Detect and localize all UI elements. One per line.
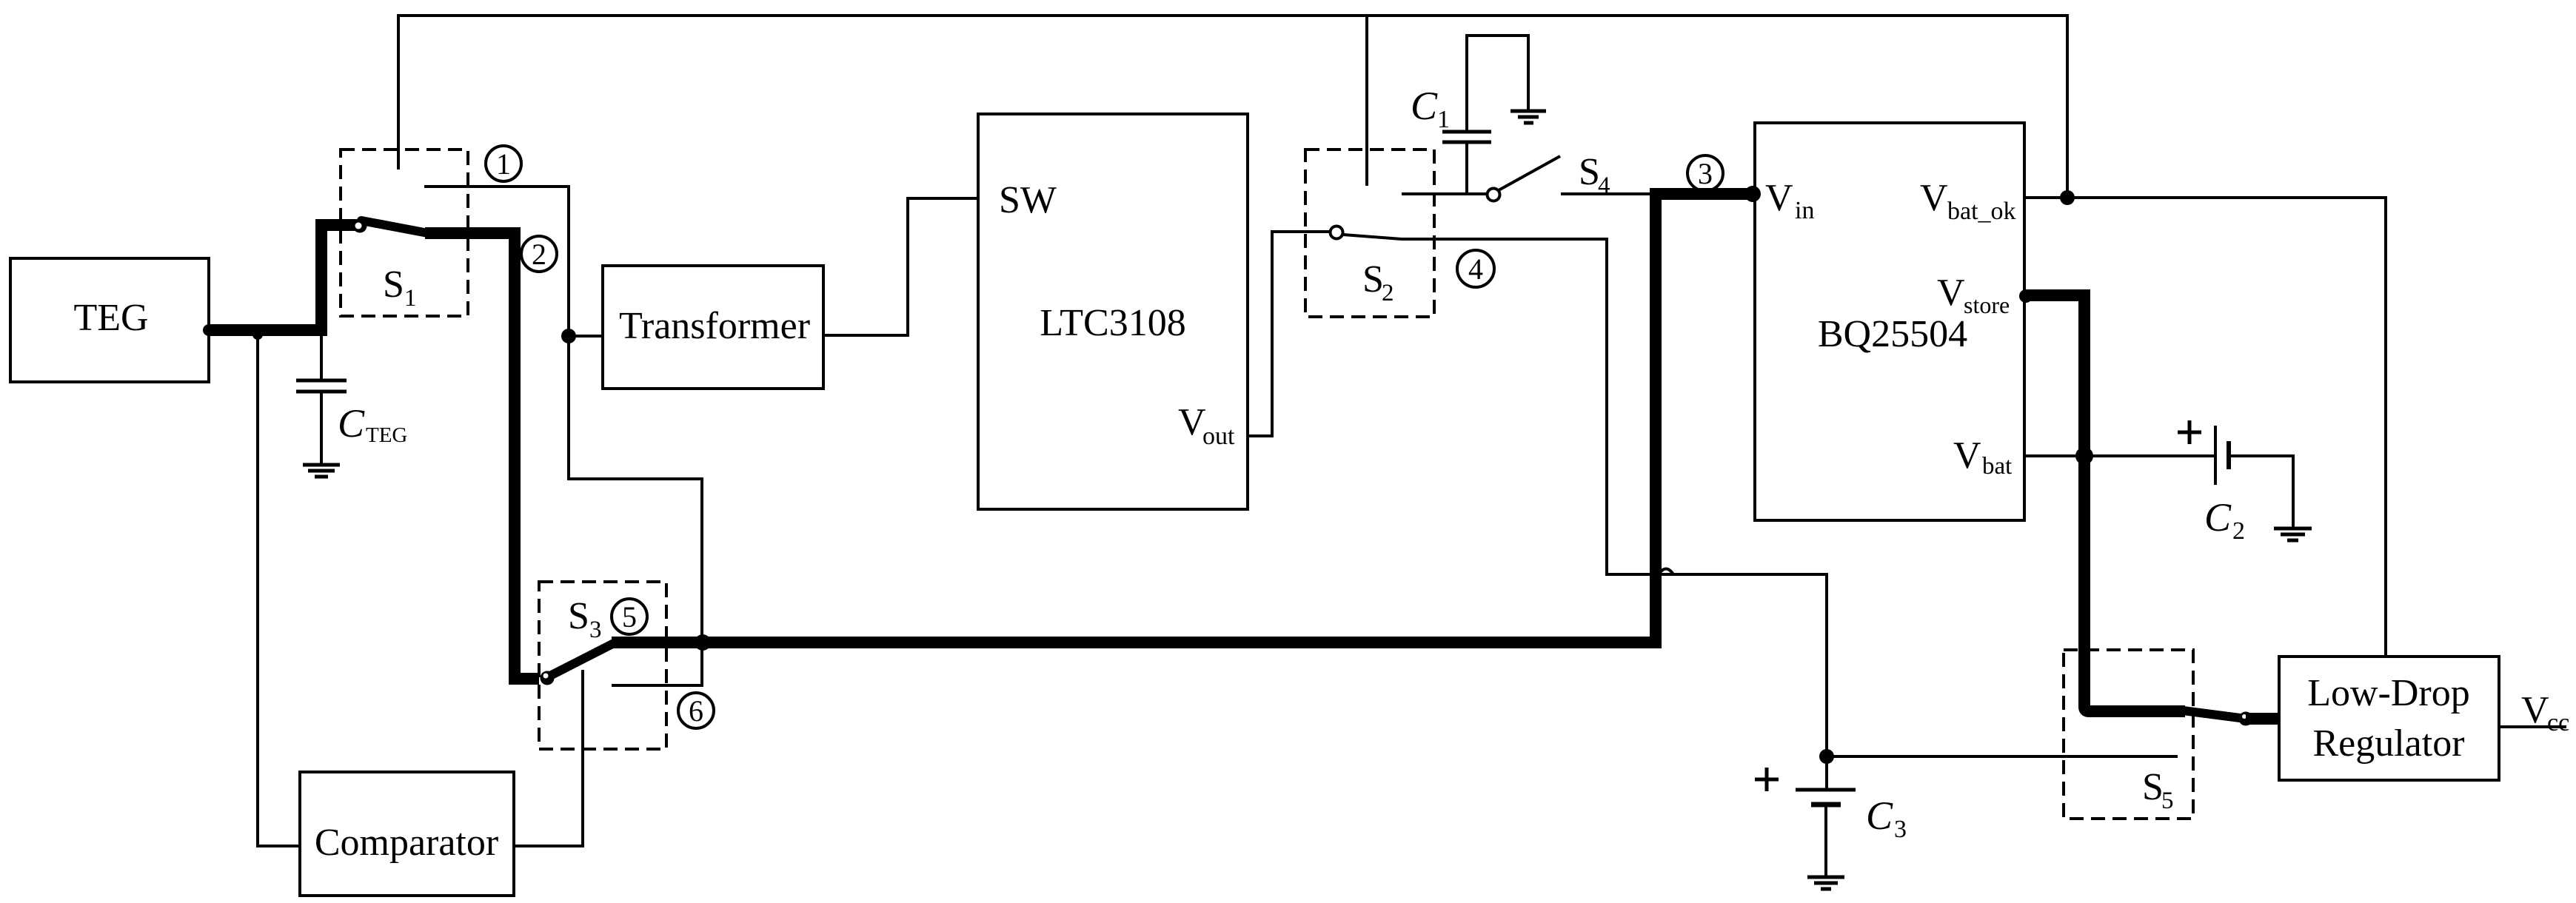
switch S1 pivot <box>353 219 367 233</box>
switch S2 lever <box>1343 235 1402 239</box>
svg-text:Regulator: Regulator <box>2312 722 2464 765</box>
wire thick S1 to S3 (down left side) <box>425 233 539 679</box>
switch S5 pivot <box>2239 712 2253 726</box>
svg-text:LTC3108: LTC3108 <box>1040 302 1185 344</box>
svg-text:4: 4 <box>1468 252 1483 286</box>
capacitor CTEG <box>296 336 407 463</box>
switch S1 dashed box <box>341 150 468 316</box>
circled node 3 <box>1687 155 1723 191</box>
label Vcc <box>2521 689 2569 736</box>
svg-text:C: C <box>338 401 365 446</box>
block Comparator <box>300 772 514 896</box>
circled node 4 <box>1457 250 1494 287</box>
label S1 <box>383 263 417 312</box>
svg-text:2: 2 <box>1382 280 1394 306</box>
capacitor C1 <box>1411 36 1528 194</box>
node transformer input junction <box>561 329 576 343</box>
switch S2 pivot <box>1331 226 1343 239</box>
wire hop over thick Vin wire <box>1659 569 1673 575</box>
plus sign C2 <box>2178 420 2201 444</box>
switch S3 dashed box <box>539 582 666 749</box>
switch S2 upper contact feed from top bus <box>1365 16 1368 186</box>
switch S3 pivot <box>541 671 555 685</box>
node TEG/CTEG/comparator junction <box>252 329 263 340</box>
svg-text:Comparator: Comparator <box>315 822 498 864</box>
wire S2 throw to C3 junction and S5 contact <box>1402 239 2178 756</box>
wire transformer output to LTC3108 SW <box>823 198 978 335</box>
node Vbat junction on thick wire <box>2075 447 2093 465</box>
wire top bus (S1 upper contact to Vbat_ok junction) <box>398 16 2067 198</box>
node thick junction with contact6 branch <box>695 634 711 651</box>
ground for CTEG <box>303 465 340 477</box>
wire TEG output thick to S1 <box>209 225 355 330</box>
node C3 junction <box>1819 749 1834 764</box>
svg-text:C: C <box>1866 793 1893 838</box>
label S5 <box>2142 766 2174 814</box>
node Vstore pin dot <box>2019 289 2033 303</box>
circled node 2 <box>521 236 557 272</box>
battery C3 <box>1796 756 1907 876</box>
svg-text:store: store <box>1964 292 2010 318</box>
wire Vbat to battery C2 <box>2024 454 2214 457</box>
node Vin pin dot <box>1744 186 1761 202</box>
wire junction to transformer <box>569 335 603 338</box>
ground for C1 <box>1511 111 1546 123</box>
plus sign C3 <box>1755 768 1779 791</box>
svg-text:5: 5 <box>622 600 637 634</box>
svg-text:BQ25504: BQ25504 <box>1818 313 1967 355</box>
circled node 5 <box>612 599 647 634</box>
circled node 1 <box>486 146 521 181</box>
ground for C3 <box>1807 877 1844 889</box>
svg-text:V: V <box>1953 434 1981 477</box>
svg-text:Low-Drop: Low-Drop <box>2307 672 2470 714</box>
svg-text:3: 3 <box>589 617 602 643</box>
block BQ25504 <box>1755 123 2024 520</box>
svg-text:S: S <box>1579 151 1600 193</box>
switch S2 dashed box <box>1305 150 1434 317</box>
svg-text:C: C <box>1411 84 1438 128</box>
svg-text:V: V <box>1937 272 1965 314</box>
circled node 6 <box>678 693 714 728</box>
svg-text:cc: cc <box>2547 709 2569 736</box>
switch S3 lever <box>549 642 615 677</box>
wire S1 contact 1 to transformer junction and S3 contact 6 <box>424 187 702 685</box>
switch S5 lever <box>2183 711 2246 719</box>
svg-text:bat_ok: bat_ok <box>1947 198 2016 225</box>
svg-text:2: 2 <box>532 238 546 271</box>
wire Vout to S2 pivot <box>1248 232 1329 436</box>
svg-text:1: 1 <box>1437 106 1450 133</box>
svg-text:V: V <box>1920 177 1948 219</box>
svg-text:C: C <box>2204 495 2232 540</box>
svg-text:S: S <box>568 595 589 637</box>
wire comparator output to S3 control <box>514 670 583 846</box>
wire thick S5 pivot to regulator <box>2246 713 2281 725</box>
svg-text:V: V <box>2521 689 2549 731</box>
block LTC3108 <box>978 114 1248 509</box>
wire Vbat_ok to regulator top <box>2024 198 2386 657</box>
svg-text:S: S <box>1362 258 1384 301</box>
switch S1 lever <box>361 221 428 233</box>
svg-text:5: 5 <box>2161 788 2174 814</box>
svg-text:1: 1 <box>496 147 511 181</box>
switch S4 contact line left <box>1402 192 1486 195</box>
label S3 <box>568 595 602 643</box>
svg-text:Transformer: Transformer <box>619 305 810 347</box>
svg-text:out: out <box>1202 423 1235 450</box>
label S2 <box>1362 258 1394 306</box>
svg-text:S: S <box>2142 766 2164 808</box>
svg-text:S: S <box>383 263 404 306</box>
label S4 <box>1579 151 1610 199</box>
battery C2 <box>2204 426 2293 545</box>
wire thick Vstore to S5 <box>2024 295 2185 711</box>
block TEG <box>10 258 209 382</box>
wire TEG junction to comparator input <box>258 336 300 846</box>
block Low-Drop Regulator <box>2279 657 2499 780</box>
node Vbat_ok bus junction <box>2060 190 2075 205</box>
block Transformer <box>603 266 823 389</box>
svg-text:bat: bat <box>1982 453 2012 480</box>
switch S5 dashed box <box>2064 650 2193 819</box>
svg-text:1: 1 <box>404 285 417 312</box>
wire Vcc output <box>2499 725 2566 728</box>
wire thick S3 common to Vin of BQ25504 <box>612 194 1750 642</box>
svg-text:2: 2 <box>2232 517 2245 545</box>
switch S4 lever <box>1499 156 1560 190</box>
svg-text:3: 3 <box>1698 157 1713 190</box>
svg-text:SW: SW <box>999 179 1057 221</box>
svg-text:3: 3 <box>1894 816 1907 843</box>
svg-text:V: V <box>1765 177 1793 219</box>
svg-text:6: 6 <box>689 694 703 728</box>
svg-text:TEG: TEG <box>366 423 407 447</box>
svg-text:TEG: TEG <box>73 297 148 339</box>
wire S4 right contact to thick Vin wire <box>1561 192 1650 195</box>
switch S4 pivot <box>1488 189 1500 201</box>
ground for C2 <box>2274 528 2312 540</box>
svg-text:V: V <box>1178 401 1206 443</box>
svg-text:in: in <box>1795 197 1814 224</box>
